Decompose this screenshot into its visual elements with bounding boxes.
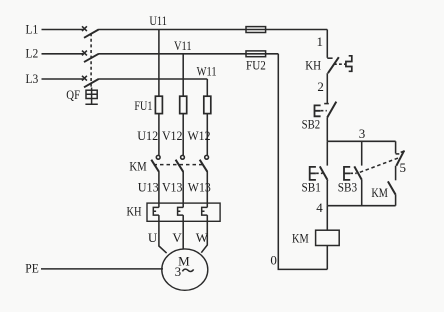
- svg-text:U11: U11: [149, 13, 167, 28]
- wire rail to coil: [326, 206, 328, 231]
- thermal relay KH heaters: [127, 203, 221, 221]
- fuse FU1: [134, 96, 210, 113]
- wire U11: [158, 30, 160, 97]
- svg-text:2: 2: [317, 79, 324, 94]
- svg-text:V11: V11: [174, 38, 192, 53]
- wire rail below SB1: [326, 180, 328, 206]
- wire right branch upper: [395, 141, 397, 153]
- stop button SB2: [302, 102, 337, 132]
- svg-text:PE: PE: [25, 261, 39, 276]
- fuse FU2: [246, 27, 266, 73]
- wire L3: [26, 71, 208, 86]
- wire V to motor: [182, 215, 184, 249]
- svg-text:L3: L3: [26, 71, 39, 86]
- wire right branch lower: [395, 195, 397, 206]
- svg-text:1: 1: [317, 34, 324, 49]
- wire rail node1: [326, 30, 328, 58]
- auxiliary contact KM: [371, 181, 395, 200]
- svg-text:SB3: SB3: [338, 180, 357, 195]
- wire V11: [182, 54, 184, 96]
- svg-text:L2: L2: [26, 46, 39, 61]
- wire U13: [158, 171, 160, 207]
- svg-text:V: V: [172, 230, 182, 245]
- svg-text:FU1: FU1: [134, 98, 152, 113]
- svg-text:3: 3: [359, 126, 366, 141]
- svg-text:SB2: SB2: [302, 117, 321, 132]
- svg-text:V12: V12: [162, 128, 183, 143]
- wire W13: [206, 171, 208, 207]
- wire L2: [26, 46, 279, 61]
- thermal relay contact KH: [305, 56, 352, 73]
- svg-text:FU2: FU2: [246, 57, 266, 72]
- interlock contact 5 (SB3 NC): [396, 151, 406, 175]
- wire W12: [206, 114, 208, 156]
- wire PE: [25, 261, 163, 276]
- wire L1: [26, 21, 328, 36]
- svg-text:U: U: [148, 230, 158, 245]
- svg-text:KM: KM: [129, 158, 147, 173]
- svg-text:U12: U12: [137, 128, 158, 143]
- contactor coil KM: [292, 230, 339, 245]
- wire node4: [327, 205, 395, 207]
- svg-text:V13: V13: [162, 180, 183, 195]
- svg-text:QF: QF: [66, 87, 80, 102]
- svg-text:4: 4: [316, 200, 323, 215]
- svg-text:KH: KH: [305, 58, 321, 73]
- wire U to motor: [159, 215, 167, 253]
- wire V13: [182, 171, 184, 207]
- circuit breaker QF: [66, 26, 98, 104]
- wire U12: [158, 114, 160, 156]
- svg-text:3: 3: [175, 264, 182, 279]
- wire rail above SB1: [326, 141, 328, 165]
- motor M 3~: [162, 249, 208, 290]
- svg-text:KM: KM: [292, 230, 309, 245]
- wire rail node3: [326, 118, 328, 142]
- svg-text:SB1: SB1: [302, 180, 321, 195]
- svg-text:W11: W11: [197, 63, 217, 78]
- svg-text:L1: L1: [26, 21, 39, 36]
- svg-text:U13: U13: [138, 180, 159, 195]
- mechanical link SB3 to 5: [360, 157, 400, 172]
- wire W to motor: [201, 215, 207, 253]
- wire neutral 0: [278, 54, 327, 270]
- jog button SB3: [338, 166, 362, 194]
- svg-text:0: 0: [270, 253, 277, 268]
- start button SB1: [302, 166, 328, 194]
- wire W11: [206, 79, 208, 96]
- wire SB3 branch upper: [361, 141, 363, 165]
- wire right branch middle: [395, 166, 397, 181]
- contactor main contacts KM: [129, 155, 208, 173]
- svg-text:KM: KM: [371, 185, 388, 200]
- svg-text:W12: W12: [188, 128, 211, 143]
- svg-text:KH: KH: [127, 204, 142, 219]
- svg-text:5: 5: [400, 160, 407, 175]
- wire SB3 branch lower: [361, 180, 363, 206]
- wire rail node2: [326, 73, 328, 103]
- svg-text:W: W: [196, 230, 209, 245]
- wire V12: [182, 114, 184, 156]
- wire node3 branch: [327, 140, 395, 142]
- wire rail below coil: [326, 246, 328, 270]
